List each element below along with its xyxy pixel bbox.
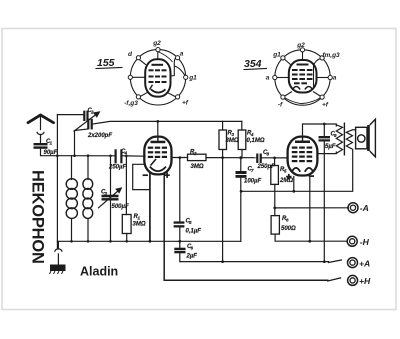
svg-text:155: 155 <box>97 57 115 69</box>
svg-text:-H: -H <box>360 237 370 247</box>
svg-text:HEKOPHON: HEKOPHON <box>29 170 47 264</box>
svg-text:3: 3 <box>232 132 235 137</box>
svg-text:3MΩ: 3MΩ <box>226 138 239 144</box>
svg-text:250µF: 250µF <box>108 165 126 171</box>
svg-text:fm,g3: fm,g3 <box>322 52 340 59</box>
svg-text:500Ω: 500Ω <box>281 226 296 232</box>
svg-text:9: 9 <box>334 133 337 138</box>
svg-text:d: d <box>128 51 133 58</box>
svg-text:2MΩ: 2MΩ <box>279 178 293 184</box>
svg-text:1: 1 <box>138 216 141 221</box>
svg-text:g1: g1 <box>272 52 281 59</box>
svg-text:8: 8 <box>267 152 270 157</box>
svg-text:2x200pF: 2x200pF <box>87 133 112 139</box>
svg-text:+f: +f <box>182 100 189 107</box>
svg-text:250pF: 250pF <box>257 164 276 170</box>
svg-text:0,1MΩ: 0,1MΩ <box>247 138 265 144</box>
svg-text:2: 2 <box>90 109 94 114</box>
svg-text:2µF: 2µF <box>186 254 198 260</box>
svg-text:Aladin: Aladin <box>80 265 118 279</box>
svg-text:+H: +H <box>359 276 371 286</box>
svg-text:5: 5 <box>189 220 192 225</box>
svg-text:90µF: 90µF <box>44 150 58 156</box>
svg-text:-f: -f <box>278 102 283 109</box>
svg-text:5µF: 5µF <box>325 144 336 150</box>
svg-text:1: 1 <box>50 141 53 146</box>
svg-text:6: 6 <box>286 218 289 223</box>
svg-text:354: 354 <box>244 58 262 70</box>
svg-text:g1: g1 <box>188 75 197 82</box>
svg-text:3MΩ: 3MΩ <box>133 222 146 228</box>
svg-text:0,1µF: 0,1µF <box>186 229 202 235</box>
svg-text:4: 4 <box>124 151 128 156</box>
svg-text:2: 2 <box>193 151 197 156</box>
svg-text:6: 6 <box>191 246 194 251</box>
svg-text:a: a <box>180 51 184 58</box>
svg-text:-f,g3: -f,g3 <box>124 100 138 107</box>
svg-text:5: 5 <box>284 169 287 174</box>
svg-text:3MΩ: 3MΩ <box>191 164 204 170</box>
svg-text:g2: g2 <box>152 40 161 47</box>
svg-text:+f: +f <box>322 102 329 109</box>
svg-text:500µF: 500µF <box>112 204 129 210</box>
svg-text:a: a <box>266 75 270 82</box>
svg-text:7: 7 <box>251 168 254 173</box>
svg-text:-A: -A <box>360 203 369 213</box>
svg-text:g2: g2 <box>296 42 305 49</box>
svg-text:4: 4 <box>250 132 254 137</box>
svg-text:+A: +A <box>359 258 370 268</box>
svg-text:a: a <box>333 75 337 82</box>
svg-text:100µF: 100µF <box>244 179 261 185</box>
